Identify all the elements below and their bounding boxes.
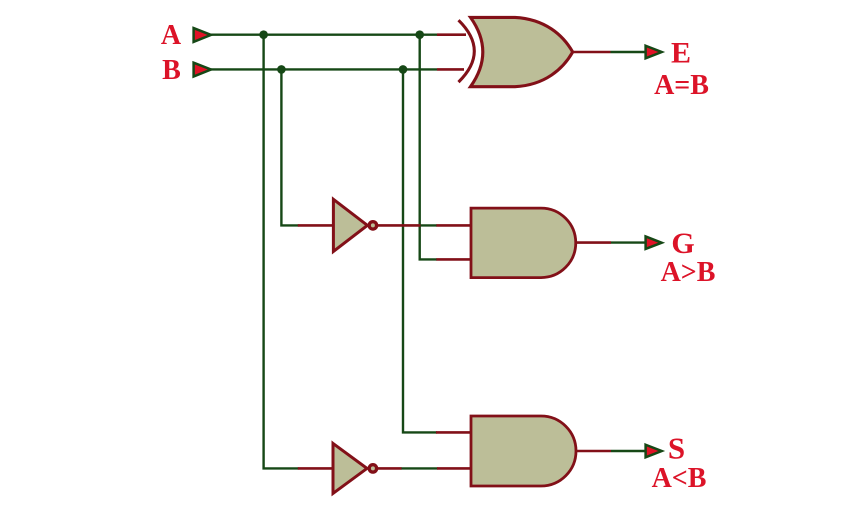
svg-text:E: E	[671, 37, 691, 70]
svg-text:B: B	[162, 55, 181, 86]
svg-text:A: A	[161, 20, 182, 51]
svg-text:A=B: A=B	[654, 70, 709, 101]
svg-text:A<B: A<B	[652, 463, 707, 494]
svg-text:G: G	[671, 227, 694, 260]
svg-text:A>B: A>B	[661, 257, 716, 288]
svg-text:S: S	[668, 430, 685, 465]
